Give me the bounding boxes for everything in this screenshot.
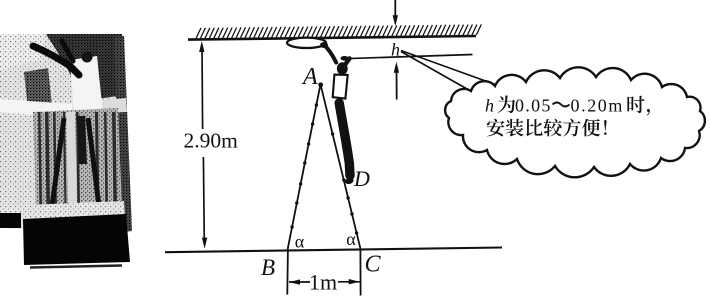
- photo: light gap between curtains: [66, 112, 77, 208]
- rung dots on leg AC: [331, 132, 334, 135]
- svg-text:B: B: [261, 255, 275, 280]
- photo: bottom edge line: [30, 266, 122, 268]
- photo: dark top-right mass: [46, 34, 125, 99]
- dimension h: lower arrow pointing up to reach line: [396, 71, 398, 100]
- person: hand on lamp: [320, 42, 328, 48]
- photo: light patch left of arm: [0, 34, 46, 70]
- dimension 2.90m vertical line with arrows: [201, 46, 204, 129]
- extension line below C: [359, 249, 361, 296]
- photo: ladder legs in photo: [52, 118, 64, 206]
- svg-text:2.90m: 2.90m: [184, 129, 239, 153]
- ground line: [165, 248, 502, 253]
- photo: curtain folds: [38, 112, 42, 209]
- extension line below B: [286, 249, 289, 294]
- photo: person head: [82, 52, 93, 63]
- rung dots on leg AB: [315, 103, 318, 106]
- cloud text line 2: installation is convenient: [487, 119, 505, 137]
- reach level line (h reference): [341, 55, 473, 59]
- dimension 1m between B and C: [289, 281, 310, 283]
- thought cloud bubble: [445, 67, 705, 177]
- svg-text:h: h: [391, 39, 400, 59]
- photo: dark blob left: [24, 68, 52, 110]
- photo: person arm raised: [33, 46, 79, 75]
- person: legs: [339, 103, 350, 176]
- ceiling line: [188, 36, 476, 40]
- callout tail lines to cloud: [401, 51, 498, 86]
- person: torso: [333, 75, 348, 99]
- photo: person legs in photo: [81, 116, 83, 164]
- svg-text:α: α: [346, 229, 356, 249]
- photo: black floor shadow mass: [0, 213, 21, 228]
- person: head: [337, 62, 348, 75]
- svg-text:C: C: [365, 252, 382, 278]
- photo: person shirt: [70, 56, 103, 117]
- person: raised arm to lamp: [324, 45, 337, 63]
- photo: curtains region: [33, 108, 122, 212]
- photo: right dark strip: [114, 36, 132, 232]
- ceiling lamp ellipse: [287, 38, 326, 48]
- ceiling hatching: [196, 24, 481, 38]
- svg-text:D: D: [353, 166, 370, 191]
- dimension h: upper arrow from above ceiling: [394, 0, 396, 18]
- photo: white rail band: [0, 99, 72, 118]
- photo: light band above floor: [0, 201, 125, 224]
- photo: light background: [0, 34, 131, 233]
- ladder leg AB: [288, 84, 321, 249]
- apex point near A: [318, 82, 323, 87]
- svg-text:0.05: 0.05: [515, 96, 552, 116]
- svg-text:h: h: [485, 96, 494, 116]
- ladder leg AC: [321, 84, 361, 248]
- svg-text:α: α: [295, 232, 305, 252]
- svg-text:0.20m: 0.20m: [571, 96, 625, 116]
- person: foot: [344, 177, 354, 185]
- svg-text:A: A: [301, 64, 318, 90]
- person: arm to reach line and hand: [345, 59, 349, 65]
- svg-text:1m: 1m: [309, 270, 337, 295]
